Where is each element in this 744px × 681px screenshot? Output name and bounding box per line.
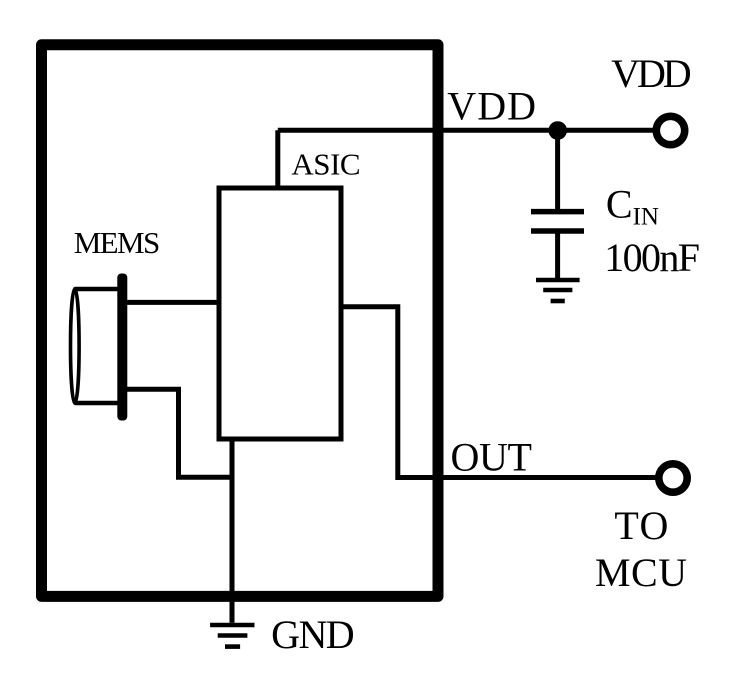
svg-text:TO: TO <box>614 503 668 548</box>
svg-text:MCU: MCU <box>595 550 687 595</box>
ground (capacitor CIN) <box>536 280 580 301</box>
svg-text:100nF: 100nF <box>604 235 700 280</box>
capacitor CIN bottom plate <box>531 228 584 234</box>
wire ASIC output to OUT terminal <box>341 307 657 478</box>
MEMS microphone body ellipse <box>71 289 80 404</box>
svg-text:CIN: CIN <box>606 182 659 231</box>
wire VDD rail <box>278 128 657 133</box>
svg-text:ASIC: ASIC <box>291 147 360 182</box>
MEMS body top line <box>75 287 122 292</box>
package outline <box>42 45 439 597</box>
wire ASIC VDD pin up to rail <box>275 130 280 188</box>
terminal OUT pad <box>659 464 687 492</box>
MEMS body bottom line <box>75 401 122 406</box>
svg-text:OUT: OUT <box>451 435 532 480</box>
MEMS electrode bar <box>117 274 127 421</box>
svg-text:VDD: VDD <box>611 51 692 96</box>
op-amp ASIC box <box>219 188 341 439</box>
node VDD junction dot <box>548 121 567 140</box>
ground (package GND) <box>210 625 254 647</box>
capacitor CIN top plate <box>531 209 584 215</box>
svg-text:GND: GND <box>271 612 355 657</box>
wire MEMS output to ASIC <box>127 300 219 305</box>
svg-text:VDD: VDD <box>447 84 536 129</box>
capacitor CIN bottom lead <box>555 231 560 280</box>
wire MEMS to ground net <box>122 389 232 477</box>
wire ASIC ground pin to ground <box>230 439 235 623</box>
terminal VDD pad <box>656 116 684 144</box>
svg-text:MEMS: MEMS <box>74 225 161 260</box>
capacitor CIN top lead <box>555 131 560 212</box>
